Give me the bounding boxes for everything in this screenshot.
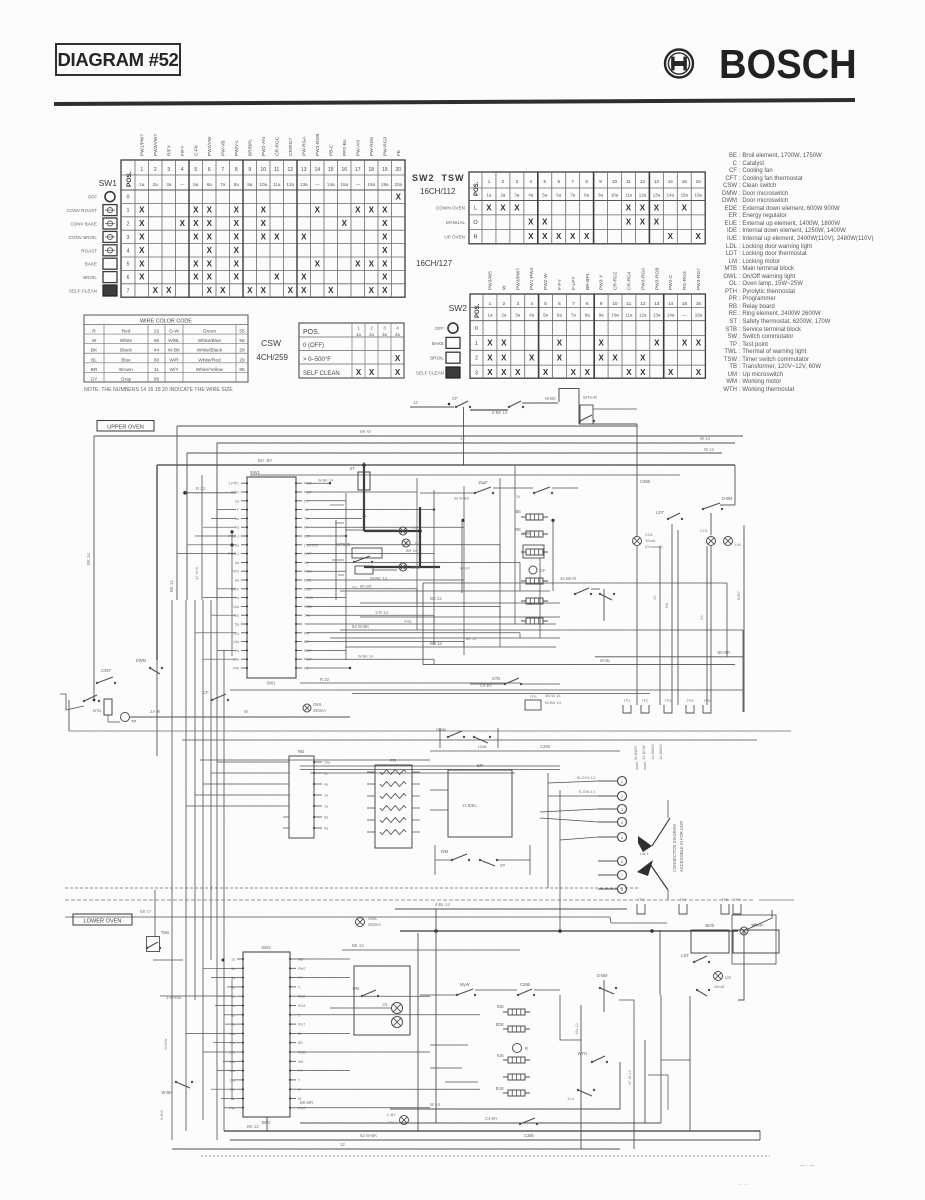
svg-text:4a BK-R: 4a BK-R [560, 576, 576, 581]
svg-text:11: 11 [626, 179, 631, 184]
svg-text:W: W [298, 1032, 302, 1036]
svg-text:8a: 8a [584, 193, 589, 198]
svg-text:BROIL: BROIL [83, 275, 97, 280]
svg-text:X: X [220, 286, 226, 295]
svg-text:> 0–500°F: > 0–500°F [303, 357, 331, 363]
svg-text:SELF CLEAN: SELF CLEAN [416, 371, 444, 376]
svg-text:22: 22 [154, 329, 160, 335]
svg-text:14a: 14a [667, 313, 675, 318]
svg-text:X: X [234, 259, 240, 268]
svg-text:7: 7 [571, 179, 574, 184]
svg-text:PW1-PW4: PW1-PW4 [529, 267, 535, 290]
svg-text:2: 2 [621, 795, 623, 799]
svg-text:R 22: R 22 [196, 486, 206, 491]
svg-text:20: 20 [395, 167, 401, 173]
svg-text:12a: 12a [286, 182, 294, 187]
svg-text:W-BK: W-BK [168, 348, 181, 354]
svg-text:BR: BR [304, 640, 309, 644]
svg-text:34: 34 [516, 494, 521, 499]
svg-text:9: 9 [248, 167, 251, 173]
svg-text:4: 4 [181, 167, 184, 173]
svg-text:X: X [261, 219, 267, 228]
svg-text:2-BK 14: 2-BK 14 [492, 410, 508, 415]
svg-text:9a: 9a [247, 182, 253, 187]
svg-text:14a: 14a [233, 658, 239, 662]
svg-text:5a: 5a [542, 193, 547, 198]
svg-text:E-GW-14: E-GW-14 [579, 789, 596, 794]
svg-text:SW2: SW2 [262, 1120, 272, 1125]
svg-text:WTH: WTH [578, 1051, 587, 1056]
svg-text:White: White [120, 338, 133, 344]
svg-text:Black: Black [120, 348, 132, 354]
svg-text:X: X [598, 353, 604, 362]
svg-text:EUE: EUE [496, 1086, 505, 1091]
svg-text:X: X [528, 232, 534, 241]
svg-text:PLB: PLB [304, 587, 311, 591]
svg-text:Y: Y [298, 1078, 301, 1082]
svg-text:TY: TY [304, 517, 309, 521]
svg-text:X: X [342, 219, 348, 228]
svg-text:BL: BL [91, 357, 97, 363]
svg-text:BU BY: BU BY [258, 458, 272, 463]
svg-text:X: X [571, 368, 577, 377]
svg-text:Y: Y [298, 985, 301, 989]
svg-text:1: 1 [357, 326, 360, 331]
svg-text:4: 4 [530, 179, 533, 184]
svg-text:BR/BPL: BR/BPL [247, 139, 253, 156]
svg-text:Brown: Brown [119, 367, 133, 373]
svg-text:1: 1 [621, 780, 623, 784]
svg-text:3a: 3a [515, 313, 520, 318]
svg-text:13: 13 [654, 179, 660, 184]
svg-text:BK 12: BK 12 [430, 596, 442, 601]
svg-text:White/Yellow: White/Yellow [196, 367, 224, 373]
svg-text:CF: CF [540, 568, 546, 573]
svg-text:6TF: 6TF [304, 535, 311, 539]
svg-text:4a: 4a [528, 193, 533, 198]
svg-text:OL: OL [383, 1002, 389, 1007]
svg-text:BK 12: BK 12 [169, 580, 174, 592]
svg-text:14a: 14a [327, 182, 335, 187]
svg-text:11: 11 [627, 301, 632, 306]
svg-text:—: — [315, 182, 320, 187]
svg-text:8: 8 [585, 179, 588, 184]
svg-text:BK: BK [91, 348, 98, 354]
svg-text:55: 55 [239, 329, 245, 335]
svg-text:PW2-AN: PW2-AN [261, 137, 267, 156]
svg-text:W-GY4-13: W-GY4-13 [577, 775, 595, 780]
svg-text:12a: 12a [639, 193, 647, 198]
svg-text:Gray: Gray [121, 376, 132, 382]
svg-text:W/Y: W/Y [169, 367, 179, 373]
svg-text:X: X [640, 218, 646, 227]
svg-text:WT500: WT500 [337, 542, 351, 547]
svg-text:1a: 1a [139, 182, 145, 187]
svg-text:X: X [166, 286, 172, 295]
svg-text:POS.: POS. [475, 303, 481, 318]
svg-text:14: 14 [668, 301, 674, 306]
svg-text:3a: 3a [231, 967, 235, 971]
svg-text:X: X [612, 353, 618, 362]
svg-text:3a: 3a [235, 517, 239, 521]
svg-text:4J W-B: 4J W-B [194, 567, 199, 580]
svg-text:10a: 10a [233, 605, 239, 609]
svg-text:X: X [514, 203, 520, 212]
svg-text:60: 60 [154, 357, 160, 363]
svg-text:X: X [486, 203, 492, 212]
svg-text:12: 12 [460, 436, 465, 441]
svg-text:UP OVEN: UP OVEN [444, 235, 465, 240]
svg-text:6: 6 [557, 179, 560, 184]
svg-text:LM: LM [725, 975, 731, 980]
svg-text:D-BM: D-BM [597, 973, 608, 978]
svg-text:IDE: IDE [497, 1004, 504, 1009]
svg-text:X: X [369, 259, 375, 268]
svg-text:X: X [301, 233, 307, 242]
svg-text:SW2: SW2 [449, 303, 468, 313]
svg-text:C397: C397 [101, 668, 112, 673]
svg-text:DWM: DWM [136, 658, 147, 663]
svg-text:X: X [207, 206, 213, 215]
svg-text:2a: 2a [324, 772, 329, 776]
svg-text:SW2 TSW: SW2 TSW [412, 173, 465, 183]
svg-text:4: 4 [621, 821, 623, 825]
svg-text:13a: 13a [233, 640, 239, 644]
svg-text:RE: RE [515, 527, 521, 532]
svg-text:4: 4 [396, 326, 399, 331]
svg-text:LDT: LDT [681, 953, 689, 958]
svg-text:X: X [382, 219, 388, 228]
svg-text:MTB: MTB [93, 708, 102, 713]
svg-text:PW-AN: PW-AN [355, 140, 361, 156]
svg-text:5a: 5a [543, 313, 548, 318]
svg-text:OFF: OFF [88, 195, 97, 200]
svg-text:PW3/VW7: PW3/VW7 [153, 134, 159, 156]
svg-text:6: 6 [127, 275, 130, 281]
svg-text:6: 6 [208, 167, 211, 173]
svg-text:X: X [543, 368, 549, 377]
svg-text:RG7: RG7 [298, 1023, 305, 1027]
svg-text:BK-W: BK-W [360, 429, 371, 434]
svg-text:W-BK 14: W-BK 14 [358, 655, 373, 659]
svg-text:F/FY: F/FY [180, 145, 186, 156]
svg-text:X: X [234, 273, 240, 282]
svg-text:4F-W 12: 4F-W 12 [627, 1070, 632, 1085]
svg-text:56: 56 [239, 338, 245, 344]
svg-text:X: X [542, 232, 548, 241]
svg-text:0 (OFF): 0 (OFF) [303, 343, 324, 349]
svg-text:W-BK: W-BK [545, 396, 556, 401]
svg-text:X: X [180, 219, 186, 228]
svg-text:X: X [261, 233, 267, 242]
svg-text:X: X [487, 353, 493, 362]
svg-text:PP2-Bn: PP2-Bn [342, 139, 348, 156]
svg-text:9a: 9a [235, 596, 239, 600]
svg-text:18a: 18a [367, 182, 375, 187]
svg-text:15: 15 [328, 167, 334, 173]
svg-text:X: X [487, 339, 493, 348]
svg-text:R/FY: R/FY [166, 144, 172, 156]
svg-text:2a: 2a [369, 332, 374, 337]
svg-text:IUE: IUE [497, 1053, 504, 1058]
svg-text:11a: 11a [625, 313, 633, 318]
svg-text:X: X [696, 368, 702, 377]
svg-text:4B-W 14: 4B-W 14 [545, 693, 561, 698]
svg-text:PR: PR [390, 758, 396, 763]
svg-text:20: 20 [652, 595, 657, 600]
svg-text:10a: 10a [611, 193, 619, 198]
svg-text:250mA: 250mA [368, 922, 381, 927]
svg-text:PTH: PTH [388, 1120, 396, 1125]
svg-text:1: 1 [489, 301, 492, 306]
svg-text:X: X [207, 273, 213, 282]
svg-text:X: X [315, 259, 321, 268]
svg-text:(Channel): (Channel) [645, 544, 663, 549]
svg-text:RB: RB [298, 749, 304, 754]
svg-text:3: 3 [383, 326, 386, 331]
svg-text:1a: 1a [488, 313, 493, 318]
svg-text:BK 12: BK 12 [247, 1124, 259, 1129]
svg-text:PW7: PW7 [298, 967, 306, 971]
svg-text:B/BY: B/BY [736, 591, 741, 600]
svg-text:250mA: 250mA [313, 708, 326, 713]
svg-text:14a: 14a [304, 614, 310, 618]
svg-text:18: 18 [368, 167, 374, 173]
svg-text:9: 9 [599, 179, 602, 184]
svg-text:X: X [288, 286, 294, 295]
svg-text:12: 12 [340, 1142, 345, 1147]
svg-text:X: X [696, 232, 702, 241]
svg-text:X: X [207, 286, 213, 295]
svg-text:9a: 9a [599, 313, 604, 318]
svg-text:15a: 15a [681, 193, 689, 198]
svg-text:PSC: PSC [304, 579, 312, 583]
svg-text:3: 3 [516, 301, 519, 306]
svg-text:2: 2 [503, 301, 506, 306]
svg-text:X: X [153, 286, 159, 295]
svg-text:PGB: PGB [304, 605, 312, 609]
svg-text:5a: 5a [235, 623, 239, 627]
svg-text:13: 13 [301, 167, 307, 173]
svg-text:White/Black: White/Black [197, 348, 223, 354]
svg-text:WTF: WTF [304, 552, 313, 556]
svg-text:6a: 6a [557, 313, 562, 318]
svg-text:BR: BR [298, 1041, 303, 1045]
svg-text:12-WWG: 12-WWG [658, 744, 663, 760]
svg-text:1-PRC: 1-PRC [228, 482, 239, 486]
svg-text:X: X [382, 233, 388, 242]
svg-text:RGB: RGB [298, 1051, 306, 1055]
svg-text:W-BK 14: W-BK 14 [370, 576, 388, 581]
svg-text:BR 16: BR 16 [430, 641, 443, 646]
svg-text:TP4: TP4 [680, 898, 687, 902]
svg-text:BAKE: BAKE [85, 262, 97, 267]
svg-text:41a: 41a [567, 1096, 574, 1101]
svg-text:2: 2 [502, 179, 505, 184]
svg-text:D-BM: D-BM [722, 496, 733, 501]
svg-text:1a: 1a [356, 332, 361, 337]
svg-text:5: 5 [621, 836, 623, 840]
svg-text:W-BWG: W-BWG [633, 746, 638, 760]
svg-text:X: X [193, 233, 199, 242]
svg-text:PW: PW [229, 1106, 235, 1110]
svg-text:6-BW: 6-BW [159, 1110, 164, 1120]
svg-text:15μF: 15μF [478, 480, 488, 485]
svg-text:2a: 2a [153, 182, 159, 187]
svg-text:R: R [474, 235, 478, 241]
svg-text:W-BK 14: W-BK 14 [545, 700, 562, 705]
svg-text:TP: TP [131, 719, 137, 724]
svg-text:C: C [298, 1088, 301, 1092]
svg-text:W-BK: W-BK [161, 1090, 172, 1095]
svg-text:6a: 6a [235, 561, 239, 565]
svg-text:TPY: TPY [733, 898, 741, 902]
svg-text:ST: ST [500, 863, 506, 868]
svg-text:SW1: SW1 [99, 178, 118, 188]
svg-text:3a: 3a [514, 193, 519, 198]
svg-text:11a: 11a [273, 182, 281, 187]
svg-text:LM: LM [735, 542, 741, 547]
svg-text:LOWER OVEN: LOWER OVEN [84, 918, 122, 924]
svg-text:CONNECTION DIAGRAM: CONNECTION DIAGRAM [672, 824, 677, 872]
svg-text:5a W-BK: 5a W-BK [360, 1133, 377, 1138]
svg-text:4: 4 [530, 301, 533, 306]
svg-text:F: F [237, 508, 240, 512]
svg-text:White/Blue: White/Blue [198, 338, 222, 344]
svg-text:X: X [654, 218, 660, 227]
svg-text:RG7: RG7 [304, 649, 311, 653]
svg-text:X: X [261, 286, 267, 295]
svg-text:X: X [274, 273, 280, 282]
svg-text:4a: 4a [395, 332, 400, 337]
svg-text:12a: 12a [233, 631, 239, 635]
svg-text:CF: CF [452, 396, 458, 401]
svg-text:X: X [139, 206, 145, 215]
svg-text:66: 66 [154, 338, 160, 344]
svg-text:20a: 20a [394, 182, 402, 187]
svg-text:12: 12 [287, 167, 293, 173]
svg-text:W: W [244, 709, 248, 714]
svg-text:WIRE COLOR CODE: WIRE COLOR CODE [140, 319, 192, 325]
svg-text:BR: BR [91, 367, 98, 373]
svg-text:7: 7 [621, 874, 623, 878]
svg-text:RG: RG [304, 631, 310, 635]
svg-text:X: X [139, 273, 145, 282]
svg-text:1: 1 [475, 341, 478, 347]
svg-text:44: 44 [154, 348, 160, 354]
svg-text:W-BL: W-BL [600, 658, 611, 663]
svg-text:14 B/BL: 14 B/BL [462, 803, 478, 808]
svg-text:8a: 8a [585, 313, 590, 318]
svg-text:X: X [207, 259, 213, 268]
svg-text:13a: 13a [300, 182, 308, 187]
svg-text:5: 5 [543, 179, 546, 184]
svg-text:8: 8 [586, 301, 589, 306]
svg-text:10: 10 [612, 179, 618, 184]
svg-text:15a: 15a [340, 182, 348, 187]
svg-text:3: 3 [621, 808, 623, 812]
svg-text:3: 3 [516, 179, 519, 184]
svg-text:X: X [139, 246, 145, 255]
svg-text:OFF: OFF [435, 326, 444, 331]
svg-text:STB: STB [492, 676, 500, 681]
svg-text:R 22: R 22 [320, 677, 330, 682]
svg-text:2a: 2a [235, 499, 239, 503]
svg-text:Blue: Blue [121, 357, 131, 363]
svg-text:5a W-BK: 5a W-BK [454, 496, 470, 500]
svg-text:X: X [369, 206, 375, 215]
svg-text:19a: 19a [381, 182, 389, 187]
svg-text:2a: 2a [500, 193, 505, 198]
svg-text:X: X [668, 232, 674, 241]
svg-text:TP5: TP5 [704, 699, 711, 703]
svg-text:9a: 9a [598, 193, 603, 198]
svg-text:X: X [585, 368, 591, 377]
svg-text:X: X [654, 339, 660, 348]
svg-text:7a: 7a [235, 649, 239, 653]
svg-text:BROIL: BROIL [430, 356, 444, 361]
svg-text:4-BL: 4-BL [404, 620, 412, 624]
svg-text:X: X [369, 286, 375, 295]
svg-text:X: X [355, 206, 361, 215]
svg-text:PW2-C: PW2-C [668, 274, 674, 290]
svg-text:SW1: SW1 [250, 470, 260, 475]
svg-text:PW/Y-L: PW/Y-L [234, 140, 240, 156]
svg-text:2: 2 [127, 222, 130, 228]
svg-text:WM: WM [441, 849, 449, 854]
svg-text:16CH/127: 16CH/127 [416, 259, 453, 268]
svg-text:16: 16 [341, 167, 347, 173]
svg-text:X: X [556, 232, 562, 241]
svg-text:PW9: PW9 [304, 482, 312, 486]
svg-text:PW3-RGB: PW3-RGB [654, 268, 660, 290]
svg-text:W-BK 14: W-BK 14 [318, 479, 333, 483]
svg-text:M: M [304, 526, 307, 530]
svg-text:PW2-J: PW2-J [228, 535, 239, 539]
svg-text:13a: 13a [653, 313, 661, 318]
svg-text:6: 6 [621, 860, 623, 864]
svg-text:X: X [193, 219, 199, 228]
svg-text:BK-BR: BK-BR [717, 650, 730, 655]
svg-text:X: X [356, 368, 362, 377]
svg-text:X: X [139, 219, 145, 228]
svg-text:2a: 2a [501, 313, 506, 318]
svg-text:PW3-RGA: PW3-RGA [640, 267, 646, 290]
svg-text:F-LPY: F-LPY [571, 276, 577, 290]
svg-text:X: X [682, 203, 688, 212]
svg-text:—: — [682, 313, 687, 318]
svg-text:X: X [640, 353, 646, 362]
svg-text:PW2/VW: PW2/VW [207, 136, 213, 156]
svg-text:C39b: C39b [524, 1133, 535, 1138]
svg-text:C: C [298, 1013, 301, 1017]
svg-text:4a: 4a [324, 783, 329, 787]
svg-text:X: X [382, 286, 388, 295]
svg-text:X: X [584, 232, 590, 241]
svg-text:L-65-RG: L-65-RG [304, 543, 318, 547]
svg-text:BK/b: BK/b [706, 923, 716, 928]
svg-text:20: 20 [699, 615, 704, 620]
svg-text:1a: 1a [231, 958, 235, 962]
svg-text:16: 16 [696, 179, 702, 184]
svg-text:PW3/W5: PW3/W5 [487, 271, 493, 290]
svg-text:O: O [473, 220, 478, 226]
svg-text:X: X [501, 368, 507, 377]
svg-text:X: X [515, 368, 521, 377]
svg-text:TwB: TwB [161, 930, 169, 935]
svg-text:ROAST: ROAST [81, 248, 97, 253]
svg-text:2: 2 [370, 326, 373, 331]
